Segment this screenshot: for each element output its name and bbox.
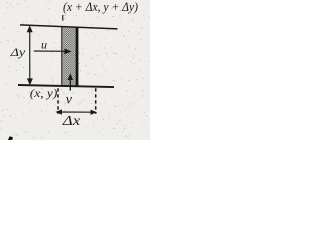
paper background — [0, 0, 150, 140]
v arrow shaft — [69, 78, 71, 91]
svg-text:Δx: Δx — [62, 113, 81, 128]
dx left arrowhead — [55, 109, 62, 114]
dy bottom arrowhead — [27, 78, 33, 85]
svg-text:(x + Δx, y + Δy): (x + Δx, y + Δy) — [63, 0, 138, 14]
dashed vertical line right — [95, 88, 97, 114]
strip right edge (thick) — [76, 27, 79, 87]
bottom-left ink blob (cropped letter) — [8, 136, 13, 140]
svg-text:Δy: Δy — [9, 45, 26, 59]
u arrow shaft — [34, 50, 67, 52]
v arrowhead — [68, 73, 74, 80]
dy dimension line — [29, 28, 31, 84]
bottom horizontal line y — [18, 85, 114, 87]
top horizontal line y+dy — [20, 25, 118, 29]
svg-text:(x, y): (x, y) — [30, 86, 57, 100]
dx right arrowhead — [91, 110, 98, 115]
shaded strip (halftone fill) — [61, 26, 78, 86]
dx dimension arrow shaft — [58, 111, 96, 113]
dashed vertical line left — [57, 88, 59, 114]
dy top arrowhead — [27, 25, 33, 32]
strip left edge — [61, 26, 63, 86]
svg-text:u: u — [41, 37, 47, 51]
paper speckle noise — [0, 0, 149, 139]
u arrowhead — [64, 49, 71, 55]
svg-text:v: v — [66, 93, 73, 108]
small tick below top label — [62, 15, 64, 21]
